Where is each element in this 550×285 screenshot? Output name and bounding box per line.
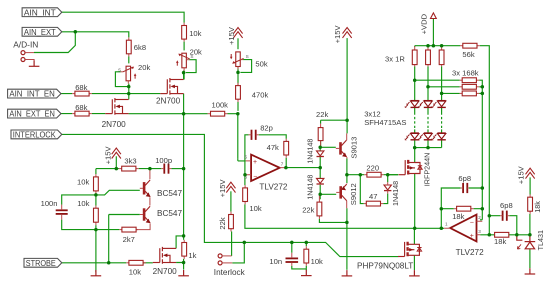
svg-text:2k7: 2k7	[123, 235, 135, 244]
resistor 22k (interlock pullup)	[229, 212, 234, 232]
diode 1N4148 (gate)	[384, 185, 391, 191]
wire 56k net down right side	[480, 46, 489, 235]
svg-text:18k: 18k	[452, 212, 464, 221]
node LED rail col2	[426, 146, 430, 150]
LED SFH4715AS (col2 top)	[418, 101, 432, 108]
wire 6p8 tap	[489, 216, 517, 235]
wire 6k8/trimmer column	[128, 56, 130, 99]
transistor PHP79NQ08LT	[398, 242, 422, 257]
svg-text:S9012: S9012	[349, 183, 358, 205]
wire LED column 3	[441, 66, 443, 100]
resistor 18k (feedback)	[454, 206, 474, 211]
node sense / PHP drain	[413, 227, 417, 231]
svg-text:BC547: BC547	[157, 189, 182, 198]
resistor 10k (by 10n)	[304, 246, 309, 266]
wire LED cathode rail	[415, 140, 442, 148]
ground (TL431)	[525, 268, 536, 274]
svg-text:82p: 82p	[260, 123, 273, 132]
svg-text:1N4148: 1N4148	[391, 181, 400, 206]
node source rail	[182, 112, 186, 116]
wire AIN_INT_EN to gate	[61, 93, 160, 95]
wire -in column with 82p feedback	[245, 135, 286, 175]
svg-text:TL431: TL431	[536, 230, 545, 250]
resistor 56k	[460, 43, 480, 48]
op-amp U1B pin wires	[444, 221, 482, 235]
LED SFH4715AS (col1 top)	[405, 101, 419, 108]
node base1 / 100n	[94, 193, 98, 197]
node lower divider rail	[94, 228, 98, 232]
resistor 6k8 (AIN_EXT)	[126, 37, 131, 56]
svg-text:STROBE: STROBE	[26, 258, 56, 268]
node VDD stub	[432, 44, 436, 48]
wire S9013 base	[320, 146, 336, 148]
svg-text:22k: 22k	[316, 110, 328, 119]
shunt reference TL431	[517, 235, 535, 250]
svg-text:+VDD: +VDD	[420, 13, 429, 34]
wire 100n top branch	[62, 195, 96, 205]
wire +15V column to S9013 collector	[346, 38, 348, 133]
node +15V / 22k	[345, 118, 349, 122]
capacitor 6p8 (feedback)	[463, 183, 467, 193]
wire diode column junctions	[319, 147, 321, 199]
node S9012 base	[318, 193, 322, 197]
wire 47k to output	[285, 158, 287, 168]
node output2 / feedback	[440, 227, 444, 231]
wire 18k2 bottom	[529, 214, 531, 235]
supply +15V (driver)	[343, 28, 352, 38]
wire AIN_EXT net	[62, 32, 129, 38]
svg-text:7: 7	[281, 161, 284, 166]
svg-text:1: 1	[445, 221, 448, 226]
ground (PHP source)	[409, 270, 420, 276]
svg-text:Interlock: Interlock	[214, 268, 246, 277]
wire STROBE net	[62, 262, 153, 264]
wire base1 jog	[96, 190, 140, 195]
wire strobe FET drain jog	[176, 236, 184, 249]
resistor 10k (opamp bias)	[243, 185, 248, 204]
resistor 10k (divider upper)	[94, 174, 99, 194]
wire 22k col bottom	[320, 140, 322, 147]
node 18k / REF	[515, 233, 519, 237]
wire trimmer 20k wiper loop	[115, 72, 128, 87]
ground (driver)	[342, 270, 353, 276]
node VDD rail col2	[426, 44, 430, 48]
resistor 22k (S9012 bias)	[317, 194, 322, 219]
svg-text:1N4148: 1N4148	[306, 175, 315, 200]
node output / diodes	[318, 166, 322, 170]
wire 100p right to column	[171, 168, 183, 170]
wire F1 source down	[183, 94, 185, 114]
transistor 2N700 (lower)	[105, 98, 128, 115]
svg-text:S9013: S9013	[349, 137, 358, 159]
svg-text:+15V: +15V	[333, 25, 342, 44]
wire strobe FET source to 1k bottom	[176, 259, 184, 270]
resistor 3k3	[119, 166, 139, 171]
trimmer 20k (left)	[123, 66, 137, 81]
wire 470k column	[237, 66, 239, 111]
LED SFH4715AS (col2 bottom)	[418, 133, 432, 140]
node trimmer2 wiper	[182, 71, 186, 75]
svg-text:22k: 22k	[218, 217, 227, 229]
node 1k top / drain	[182, 234, 186, 238]
node 50k wiper	[236, 71, 240, 75]
resistor 168k (2)	[460, 84, 480, 89]
resistor 18k (from +15V)	[528, 195, 533, 214]
resistor 220	[364, 172, 383, 177]
wire opamp2 -in	[480, 219, 482, 221]
svg-text:100k: 100k	[212, 101, 229, 110]
svg-text:10k: 10k	[311, 257, 323, 266]
svg-text:68k: 68k	[75, 103, 87, 112]
svg-text:10k: 10k	[129, 268, 141, 277]
wire base2 branch	[109, 215, 140, 263]
wire PHP drain	[413, 228, 415, 244]
wire +15V to 18k2	[529, 177, 531, 194]
svg-text:TLV272: TLV272	[259, 183, 288, 192]
supply +VDD	[431, 13, 437, 19]
wire 168k row feeds	[415, 80, 460, 93]
node 6p8 right	[481, 186, 485, 190]
trimmer 20k (right)	[176, 53, 190, 68]
wire gnd stub small 10k	[305, 269, 307, 270]
svg-text:+15V: +15V	[517, 165, 526, 184]
LED SFH4715AS (col1 bottom)	[405, 133, 419, 140]
wire 22k2 bottom jog	[319, 219, 347, 222]
net flag AIN_INT_EN	[8, 89, 61, 99]
svg-text:AIN_INT: AIN_INT	[24, 7, 57, 17]
wire 1k top lead	[183, 236, 185, 240]
node 3k3 / 100p / collector	[148, 167, 152, 171]
svg-text:A/D-IN: A/D-IN	[13, 40, 38, 50]
svg-text:5: 5	[244, 154, 247, 159]
capacitor 100p	[164, 164, 168, 174]
svg-text:22k: 22k	[302, 205, 314, 214]
wire VDD rail	[415, 45, 460, 47]
transistor BC547 (lower)	[144, 206, 150, 223]
wire trimmer2 wiper loop	[186, 60, 196, 73]
svg-text:−: −	[470, 219, 474, 226]
pin A/D-IN 2	[21, 58, 25, 62]
svg-text:47k: 47k	[267, 143, 279, 152]
wire S9012 base	[320, 193, 336, 195]
transistor IRFP244N	[399, 160, 423, 175]
svg-text:+: +	[253, 159, 257, 166]
svg-text:S: S	[246, 54, 249, 59]
wire LED dashed continuation	[415, 113, 442, 130]
resistor 47	[364, 201, 383, 206]
capacitor 6p8 (comp)	[503, 211, 507, 221]
pin A/D-IN 1	[21, 51, 25, 55]
wire 10k divider column	[95, 169, 97, 273]
S9012 pin leads	[346, 183, 348, 208]
svg-text:10k: 10k	[77, 199, 89, 208]
svg-text:S: S	[190, 54, 193, 59]
svg-text:100p: 100p	[155, 156, 172, 165]
wire modulation node column x=184	[183, 114, 185, 236]
node LED col2 tap	[426, 85, 430, 89]
svg-text:3x12: 3x12	[364, 109, 380, 118]
supply +15V (reference)	[526, 168, 535, 178]
svg-text:AIN_EXT: AIN_EXT	[24, 27, 57, 37]
LED SFH4715AS (col3 bottom)	[432, 133, 446, 140]
wire TL431 anode to ground	[529, 249, 531, 268]
wire 168k right column	[479, 80, 482, 220]
svg-text:56k: 56k	[462, 50, 474, 59]
wire opamp1 output	[286, 167, 320, 169]
wire 22k top jog to +15 column	[321, 120, 347, 123]
wire emitters column	[346, 159, 348, 184]
svg-text:6p8: 6p8	[500, 201, 513, 210]
resistor 1R (a)	[412, 46, 417, 66]
wire F1 drain up	[183, 71, 185, 80]
node +15V tap	[115, 167, 119, 171]
wire LED column 1	[414, 66, 416, 100]
ground (divider)	[91, 270, 102, 276]
svg-text:3x 1R: 3x 1R	[385, 54, 405, 63]
trimmer 50k	[230, 52, 244, 67]
node trimmer1 wiper	[127, 85, 131, 89]
wire gate drive line 220	[347, 174, 398, 176]
wire 10n branch	[292, 242, 307, 269]
wire LED column 2	[427, 66, 429, 100]
svg-text:TLV272: TLV272	[456, 248, 485, 257]
node S9013 base	[318, 146, 322, 150]
wire IRFP source to sense node	[414, 174, 416, 229]
wire IRFP gate	[388, 174, 399, 176]
wire +15V stub left	[115, 156, 117, 168]
svg-text:3x 168k: 3x 168k	[452, 68, 479, 77]
wire feedback leg opamp2	[441, 188, 460, 228]
node divider / +in	[236, 112, 240, 116]
svg-text:INTERLOCK: INTERLOCK	[13, 130, 56, 140]
wire +in jog	[237, 158, 239, 161]
resistor 10k (divider lower)	[94, 206, 99, 226]
resistor 2k7	[119, 227, 138, 232]
node 10n top	[290, 241, 294, 245]
ground (strobe source)	[178, 270, 189, 276]
svg-text:6p8: 6p8	[458, 174, 471, 183]
op-amp U1A pin wires	[245, 161, 286, 175]
node 47k / output	[284, 166, 288, 170]
svg-text:+15V: +15V	[218, 179, 227, 198]
node S9012 collector / 22k2	[345, 221, 349, 225]
wire AIN_INT net	[62, 12, 184, 23]
node LED col3 tap	[440, 92, 444, 96]
wire 3k3 line	[96, 168, 161, 170]
svg-text:3k3: 3k3	[124, 157, 136, 166]
svg-text:68k: 68k	[75, 83, 87, 92]
svg-text:IRFP244N: IRFP244N	[422, 153, 431, 187]
wire 50k wiper loop	[240, 60, 251, 73]
diode 1N4148 (upper)	[317, 151, 324, 157]
resistor 470k	[236, 83, 241, 102]
svg-text:10k: 10k	[77, 178, 89, 187]
op-amp U1B TLV272 (mirrored)	[450, 215, 476, 242]
svg-text:1N4148: 1N4148	[306, 139, 315, 164]
wire source rail to 100k and opamp +in	[129, 114, 246, 161]
wire AIN_EXT_EN to gate	[61, 113, 105, 115]
node 1k bottom / source	[182, 261, 186, 265]
svg-text:10k: 10k	[249, 204, 261, 213]
svg-text:10n: 10n	[269, 257, 282, 266]
resistor 68k (AIN_EXT_EN)	[72, 111, 92, 116]
svg-text:3: 3	[478, 229, 481, 234]
resistor 10k (strobe gate)	[126, 260, 146, 265]
op-amp U1A TLV272	[251, 155, 280, 181]
svg-text:S: S	[118, 67, 121, 72]
ground A/D-IN	[29, 61, 40, 67]
wire 10k to trimmer2 column	[183, 42, 185, 80]
wire 6p8#1 right / 18k#1 right	[469, 188, 483, 209]
svg-text:10k: 10k	[189, 29, 201, 38]
resistor 168k (1)	[460, 78, 480, 83]
svg-text:PHP79NQ08LT: PHP79NQ08LT	[357, 262, 413, 271]
svg-text:220: 220	[366, 163, 379, 172]
pin Interlock 1	[218, 254, 222, 258]
resistor 1R (c)	[439, 46, 444, 66]
svg-text:470k: 470k	[252, 91, 269, 100]
wire 47 branch right with diode	[383, 175, 388, 204]
supply +15V (top)	[233, 28, 242, 38]
net flag INTERLOCK	[11, 130, 62, 140]
S9013 pin leads	[346, 133, 348, 158]
resistor 68k (AIN_INT_EN)	[72, 91, 92, 96]
transistor S9013 NPN	[341, 140, 347, 157]
wire interlock pin1 to 22k	[231, 232, 233, 256]
resistor 1k	[182, 240, 187, 259]
node interlock rail	[243, 241, 247, 245]
capacitor 100n	[56, 210, 68, 214]
wire +15V to 22k pullup	[230, 191, 232, 211]
wire interlock pin2 to rail	[232, 242, 244, 263]
supply +15V (interlock pullup)	[226, 182, 235, 192]
wire 100n bottom branch	[62, 220, 120, 230]
svg-text:2N700: 2N700	[102, 120, 127, 129]
wire VDD stub	[432, 19, 434, 46]
net flag STROBE	[24, 258, 62, 268]
svg-text:AIN_INT_EN: AIN_INT_EN	[9, 89, 55, 99]
node -in	[243, 173, 247, 177]
node 168k right 3	[481, 92, 485, 96]
svg-text:2: 2	[478, 215, 481, 220]
svg-text:−: −	[253, 173, 257, 180]
node 6p8 comp tap	[488, 214, 492, 218]
svg-text:2N700: 2N700	[156, 97, 181, 106]
node TL431 cathode	[528, 233, 532, 237]
node LED col1 tap	[413, 78, 417, 82]
node VDD rail col3	[440, 44, 444, 48]
node 18k feedback left	[440, 207, 444, 211]
svg-text:20k: 20k	[138, 63, 150, 72]
capacitor 10n	[286, 258, 299, 262]
transistor BC547 (upper)	[144, 180, 150, 197]
resistor 18k (ref divider)	[494, 232, 509, 237]
ground (10n/10k)	[301, 270, 312, 276]
wire INTERLOCK net to PHP gate	[62, 134, 398, 256]
wire +15V to 50k	[237, 38, 239, 49]
resistor 100k	[208, 111, 228, 116]
resistor 168k (3)	[460, 91, 480, 96]
transistor 2N700 (upper)	[160, 78, 183, 95]
wire LED column bottoms	[415, 108, 442, 133]
node 168k right 2	[481, 85, 485, 89]
svg-text:+15V: +15V	[104, 146, 113, 165]
resistor 22k (S9013 bias)	[318, 124, 323, 148]
svg-text:1k: 1k	[188, 251, 196, 260]
node STROBE / base2	[107, 261, 111, 265]
supply +15V (left)	[112, 148, 121, 158]
pin Interlock 2	[218, 261, 222, 265]
diode 1N4148 (lower)	[317, 178, 324, 184]
svg-text:BC547: BC547	[157, 209, 182, 218]
node AIN_EXT / A/D-IN	[74, 30, 78, 34]
wire A/D-IN branch	[34, 32, 75, 53]
wire BC547 cascade	[136, 169, 150, 230]
wire IRFP drain to LED rail	[414, 148, 416, 163]
svg-text:18k: 18k	[494, 237, 506, 246]
svg-text:47: 47	[369, 192, 377, 201]
svg-text:18k: 18k	[533, 201, 542, 213]
net flag AIN_EXT	[22, 27, 62, 37]
node LED rail / IRFP drain	[413, 146, 417, 150]
svg-text:100n: 100n	[41, 199, 58, 208]
net flag AIN_EXT_EN	[8, 109, 61, 119]
resistor 1R (b)	[426, 46, 431, 66]
svg-text:AIN_EXT_EN: AIN_EXT_EN	[9, 109, 55, 119]
wire S9012 collector to ground column	[346, 208, 348, 270]
svg-text:+: +	[470, 233, 474, 240]
resistor 47k	[284, 139, 289, 158]
transistor S9012 PNP	[341, 184, 347, 201]
svg-text:6k8: 6k8	[134, 43, 146, 52]
node +in2	[488, 233, 492, 237]
node 10k top	[305, 241, 309, 245]
svg-text:50k: 50k	[255, 60, 267, 69]
net flag AIN_INT	[22, 7, 62, 17]
resistor 10k (AIN_INT)	[182, 23, 187, 42]
node 220 left	[359, 173, 363, 177]
svg-text:2N700: 2N700	[153, 267, 178, 276]
svg-text:+15V: +15V	[227, 26, 236, 45]
svg-text:SFH4715AS: SFH4715AS	[364, 118, 406, 127]
capacitor 82p	[252, 130, 256, 140]
node 100p right	[182, 167, 186, 171]
wire +in line with 18k to TL431	[480, 234, 530, 236]
node AIN_INT_EN gate net	[127, 92, 131, 96]
transistor 2N700 (strobe)	[153, 247, 176, 264]
wire -in 10k leg and long line to output stage	[245, 175, 444, 229]
LED SFH4715AS (col3 top)	[432, 101, 446, 108]
wire 10k by 10n	[305, 242, 307, 269]
wire 47 branch left	[360, 175, 364, 204]
wire 1R column leads	[415, 46, 442, 47]
node 220 right / gate	[386, 173, 390, 177]
node emitters	[345, 173, 349, 177]
node 18k right	[481, 207, 485, 211]
wire PHP source to ground	[413, 255, 415, 270]
